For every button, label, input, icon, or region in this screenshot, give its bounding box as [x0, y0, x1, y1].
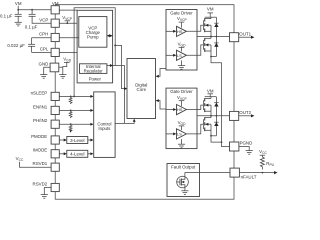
ground under C1	[15, 22, 22, 26]
capacitor C1 0.1uF VM bypass	[15, 10, 22, 23]
pin PMODE	[51, 136, 59, 144]
svg-text:nFAULT: nFAULT	[241, 174, 257, 179]
wire RSVD2 to ground	[44, 188, 51, 195]
svg-text:RSVD1: RSVD1	[33, 161, 48, 166]
transistor Q1 high-side NMOS	[210, 17, 212, 18]
diode D4 body diode LS2	[211, 116, 219, 136]
wire nFAULT external	[239, 172, 275, 174]
internal regulator block U2	[80, 64, 107, 74]
wire GND box to left ground	[44, 67, 50, 74]
pin EN/IN1	[51, 106, 59, 114]
VCP charge pump block U1	[79, 17, 107, 48]
ground for RSVD2	[41, 195, 48, 199]
transistor Q2 low-side NMOS	[210, 37, 212, 39]
op-amp LS predriver 2	[177, 129, 187, 139]
control inputs block U4	[94, 92, 115, 157]
wire IMODE to 4-level	[59, 153, 64, 155]
svg-text:LS: LS	[177, 53, 182, 58]
wire charge pump bidirectional arrows	[107, 35, 113, 37]
svg-text:Core: Core	[137, 87, 147, 92]
svg-text:Inputs: Inputs	[98, 126, 111, 131]
wire CPH pin to flying cap and power block	[32, 37, 79, 39]
svg-text:Gate Driver: Gate Driver	[170, 10, 193, 15]
pin PGND	[230, 142, 239, 151]
node VM rail junction dot	[17, 9, 19, 11]
wire 4-level to control inputs	[88, 153, 91, 155]
power block outer box	[77, 10, 113, 83]
transistor Q3 high-side NMOS	[210, 97, 212, 99]
wire VM pin to power block	[59, 9, 77, 11]
svg-text:0.1 µF: 0.1 µF	[0, 14, 13, 19]
op-amp HS predriver 1	[177, 26, 187, 36]
pin GND	[50, 63, 59, 72]
wire LS1 output to gate	[186, 45, 203, 55]
svg-text:VM: VM	[207, 7, 214, 12]
transistor Q4 low-side NMOS	[210, 116, 212, 118]
wire VCP pin to power block	[59, 22, 77, 24]
transistor Q5 open-drain fault FET	[177, 176, 189, 188]
svg-text:VM: VM	[52, 1, 59, 6]
capacitor C2 0.1uF VCP flying to VM	[29, 10, 51, 24]
svg-text:CPH: CPH	[39, 32, 48, 37]
svg-text:VM: VM	[15, 1, 22, 6]
ground in gate driver 2	[178, 139, 185, 148]
resistor R1 nSLEEP pulldown	[69, 96, 72, 104]
ground in gate driver 1	[178, 60, 185, 69]
wire HS2 output to gate	[186, 105, 203, 109]
wire gate driver 2 to digital core	[156, 101, 166, 109]
wire gate driver 1 to digital core	[156, 69, 166, 77]
wire nSLEEP input	[59, 95, 90, 97]
4-level detect block	[67, 150, 88, 157]
3-level detect block	[67, 137, 88, 144]
svg-text:0.022 µF: 0.022 µF	[7, 43, 25, 48]
svg-text:Gate Driver: Gate Driver	[170, 89, 193, 94]
wire HS1 input	[166, 30, 174, 32]
wire PMODE to 3-level	[59, 139, 64, 141]
wire PGND to ground	[239, 147, 249, 151]
ground right of GND pin	[59, 75, 66, 79]
pin VM	[51, 6, 59, 14]
svg-text:0.1 µF: 0.1 µF	[25, 25, 38, 30]
wire LS1 input	[166, 54, 174, 56]
wire OUT2 node rail	[210, 111, 212, 116]
svg-text:GND: GND	[39, 61, 49, 66]
svg-text:PMODE: PMODE	[31, 134, 47, 139]
resistor R3 PH/IN2 pulldown	[69, 124, 72, 132]
svg-text:CPL: CPL	[40, 47, 49, 52]
gate driver 1 block	[166, 10, 197, 71]
diode D3 body diode HS2	[215, 97, 217, 116]
wire fault FET drain to nFAULT	[185, 173, 230, 178]
wire HS2 input	[166, 109, 174, 111]
chip boundary	[55, 5, 234, 200]
svg-text:RSVD2: RSVD2	[33, 181, 48, 186]
pin VCP	[51, 19, 59, 27]
capacitor C3 0.022uF flying	[28, 38, 35, 53]
pin RSVD2	[51, 183, 59, 191]
wire control inputs to digital core	[115, 120, 134, 123]
pin CPL	[51, 48, 59, 56]
op-amp LS predriver 1	[177, 50, 187, 60]
svg-text:HS: HS	[177, 29, 183, 34]
wire VGD rail down to logic	[124, 66, 126, 124]
svg-text:Regulator: Regulator	[84, 69, 104, 74]
ground left of GND pin	[40, 75, 47, 79]
wire LS2 output to gate	[186, 124, 203, 134]
op-amp HS predriver 2	[177, 105, 187, 115]
fault output block	[167, 164, 200, 197]
svg-text:HS: HS	[177, 107, 183, 112]
wire GND box to right ground	[59, 66, 63, 68]
digital core block U3	[127, 59, 156, 119]
resistor R2 EN/IN1 pulldown	[69, 110, 72, 118]
wire HS1 output to gate	[186, 25, 203, 31]
svg-text:Fault Output: Fault Output	[171, 165, 196, 170]
svg-text:OUT1: OUT1	[239, 31, 251, 36]
pin CPH	[51, 33, 59, 41]
node cap C2 junction dot	[31, 9, 33, 11]
resistor RPU pull-up	[260, 155, 264, 169]
svg-text:LS: LS	[177, 131, 182, 136]
diode D1 body diode HS1	[215, 17, 217, 36]
node power rail tee dot	[114, 44, 116, 46]
gate driver 2 block	[166, 88, 197, 149]
wire PH/IN2 input	[59, 123, 90, 125]
wire VCP rail to digital core	[115, 45, 126, 88]
svg-text:Power: Power	[89, 76, 102, 81]
pin nFAULT	[230, 168, 239, 177]
wire EN/IN1 input	[59, 109, 90, 111]
svg-text:EN/IN1: EN/IN1	[33, 104, 48, 109]
wire OUT2 external	[239, 115, 253, 117]
wire drain rail half-bridge 2	[205, 96, 217, 98]
wire OUT1 node rail	[210, 31, 212, 36]
wire 3-level to control inputs	[88, 139, 91, 141]
svg-text:PGND: PGND	[240, 141, 253, 146]
svg-text:PH/IN2: PH/IN2	[33, 118, 48, 123]
svg-text:3-Level: 3-Level	[70, 138, 84, 143]
wire OUT1 external	[239, 36, 253, 38]
svg-text:VCP: VCP	[39, 17, 48, 22]
wire LS sources to PGND	[211, 51, 230, 147]
wire VCC to RSVD1	[20, 162, 52, 167]
pin nSLEEP	[51, 92, 59, 100]
svg-text:nSLEEP: nSLEEP	[31, 90, 48, 95]
wire internal regulator output arrow	[107, 65, 125, 67]
svg-text:IMODE: IMODE	[33, 148, 47, 153]
svg-text:4-Level: 4-Level	[70, 152, 84, 157]
wire drain rail half-bridge 1	[205, 16, 217, 18]
pin PH/IN2	[51, 120, 59, 128]
pin OUT1	[230, 33, 239, 42]
wire LS2 input	[166, 133, 174, 135]
ground at PGND	[246, 151, 253, 155]
node nSLEEP over-route junction dot	[73, 96, 75, 98]
wire LS2 source to PGND rail	[211, 130, 222, 142]
svg-text:OUT2: OUT2	[239, 110, 251, 115]
wire nSLEEP over-route	[74, 8, 115, 97]
pin OUT2	[230, 111, 239, 120]
wire CPL pin to flying cap and power block	[32, 51, 78, 53]
diode D2 body diode LS1	[211, 37, 219, 57]
wire VM external rail	[18, 6, 51, 10]
svg-text:VM: VM	[207, 89, 214, 94]
ground under fault FET	[181, 188, 188, 195]
svg-text:Pump: Pump	[87, 34, 99, 39]
wire arrow into digital core left	[124, 87, 127, 90]
node RPU to nFAULT junction dot	[262, 172, 264, 174]
pin RSVD1	[51, 163, 59, 171]
pin IMODE	[51, 150, 59, 158]
